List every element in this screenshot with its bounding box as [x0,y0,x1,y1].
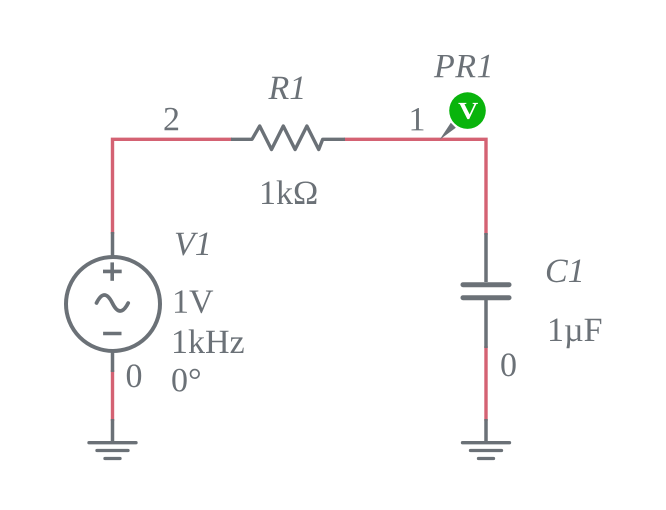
wire net 0: C1 bottom to right ground [484,346,487,421]
ground (right) [463,419,510,459]
label R1 [268,77,302,99]
label V1 [176,233,208,256]
node label 2 [164,108,178,131]
label PR1 [434,55,490,77]
node label 0 (V1) [127,364,141,387]
voltage source V1 [66,232,160,372]
value 1uF [550,319,601,349]
ground (left) [89,419,136,459]
capacitor C1 [463,233,509,348]
wire net 2: V1 top to R1 left [113,139,233,234]
label C1 [547,259,581,282]
wire net 0: V1 bottom to left ground [111,370,114,421]
value 1kΩ [262,180,317,204]
value 0deg [172,369,200,392]
value 1V [175,290,213,313]
resistor R1 [231,126,345,150]
probe PR1 [440,92,486,140]
value 1kHz [174,329,244,353]
wire net 1: R1 right to corner to C1 top [344,139,486,235]
node label 0 (C1) [501,353,515,376]
node label 1 [411,108,423,130]
